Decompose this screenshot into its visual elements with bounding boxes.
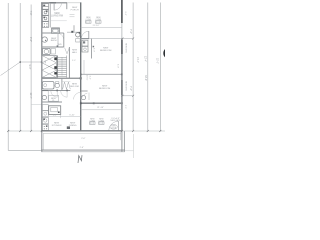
svg-text:6'-10": 6'-10" — [69, 114, 75, 116]
svg-text:10'-6": 10'-6" — [85, 75, 87, 81]
deck bottom edge 1 — [41, 149, 125, 151]
water heater — [42, 95, 46, 99]
bathtub — [42, 82, 54, 90]
window dark blob — [121, 40, 123, 54]
AC unit 4 — [99, 118, 105, 124]
margin bubble — [164, 49, 173, 58]
svg-text:BED RM: BED RM — [70, 86, 79, 88]
front door leaf — [53, 3, 55, 10]
deck left edge — [41, 131, 43, 152]
left unit left wall — [41, 2, 43, 131]
svg-text:BEDROOM: BEDROOM — [100, 50, 111, 52]
toilet 2 — [56, 82, 59, 84]
porch step lines — [70, 14, 75, 16]
right unit right wall — [121, 38, 123, 131]
deck top edge — [41, 130, 122, 132]
fence gate dark segment — [121, 0, 123, 23]
entry return wall — [66, 3, 68, 9]
right dim line A — [132, 3, 134, 132]
deck depth tick — [120, 132, 122, 140]
bath door arc — [57, 33, 63, 39]
door arc party — [74, 92, 81, 99]
deck right edge inner — [123, 131, 125, 152]
svg-text:7'-2": 7'-2" — [129, 29, 132, 34]
porch front edge — [67, 2, 81, 4]
svg-text:21'-10": 21'-10" — [93, 25, 100, 27]
bath top wall segment — [60, 32, 64, 34]
party wall — [80, 2, 82, 131]
wall y102 — [42, 101, 62, 103]
rear wall jamb dot — [93, 102, 95, 104]
right unit porch edge — [89, 38, 122, 40]
left dimension line B — [19, 3, 21, 131]
counter box b — [42, 111, 48, 117]
svg-text:PORCH: PORCH — [71, 10, 79, 12]
svg-text:BEDROOM: BEDROOM — [99, 88, 110, 90]
svg-text:NEW WIN: NEW WIN — [124, 81, 126, 91]
svg-text:5'-0": 5'-0" — [93, 48, 95, 52]
porch door leaf — [73, 25, 75, 31]
AC unit 3 — [90, 118, 96, 124]
wall y78.3 — [42, 77, 81, 79]
window segment 2 accent — [121, 80, 123, 95]
shaft posts — [54, 57, 57, 74]
gate door arc — [109, 121, 119, 131]
wall y47 — [42, 46, 64, 48]
svg-text:3'-0": 3'-0" — [124, 105, 126, 109]
svg-text:2'-6": 2'-6" — [80, 147, 84, 149]
right unit front wall segment — [80, 38, 89, 40]
vanity inner — [53, 29, 58, 32]
svg-text:HALL: HALL — [72, 51, 78, 54]
right unit counter box 2 — [82, 46, 88, 52]
grade line bottom left — [8, 149, 42, 151]
leader horizontal y57.6 — [20, 61, 42, 63]
right unit toilet — [81, 96, 85, 100]
hall wall y33 — [42, 32, 52, 34]
toilet — [42, 37, 47, 42]
svg-text:5'-0": 5'-0" — [116, 64, 118, 68]
rear yard dim line — [81, 109, 122, 111]
dim tick dot — [93, 46, 95, 48]
AC unit 2 — [96, 17, 102, 23]
hall wall x69.4 — [68, 47, 70, 78]
kitchen dim line — [49, 115, 81, 119]
gate label oval — [110, 125, 117, 130]
right dim line C — [159, 3, 161, 132]
mid wall junction dots — [80, 74, 82, 76]
svg-text:2'-8": 2'-8" — [29, 37, 32, 42]
left dimension line A — [7, 3, 9, 151]
mid wall right unit — [81, 73, 122, 75]
right dim arrow y95.8 — [122, 95, 133, 97]
front window sill dark segment — [50, 2, 57, 4]
porch door hinge dot — [71, 31, 73, 33]
dryer box — [51, 48, 55, 54]
svg-text:KITCHEN: KITCHEN — [52, 125, 62, 127]
bath inner wall — [57, 33, 59, 47]
right unit rear wall — [80, 102, 122, 104]
vanity unit on wall — [52, 28, 60, 34]
stair shaft box — [42, 56, 56, 78]
right dim line A lower — [133, 134, 135, 158]
stair direction arrow — [61, 58, 63, 76]
washer — [43, 48, 51, 54]
closet door V top — [65, 48, 70, 54]
svg-text:21'-4": 21'-4" — [136, 57, 139, 63]
kitchen partition wall — [49, 3, 51, 28]
left dimension line C — [30, 5, 32, 132]
left unit front wall — [41, 2, 67, 4]
stair treads — [57, 57, 66, 76]
svg-text:2'-6": 2'-6" — [81, 138, 85, 140]
closet outline — [49, 95, 59, 101]
living room edge faint — [50, 20, 67, 22]
right dim arrow y38.6 — [122, 38, 133, 40]
counter dark bits — [43, 118, 45, 120]
kitchen appliance column — [43, 4, 49, 28]
front yard dim line — [81, 27, 122, 29]
right dim line B — [147, 3, 149, 132]
porch rear wall — [67, 31, 81, 33]
deck step dark mark — [67, 126, 70, 129]
dim tick pair — [88, 93, 90, 101]
svg-text:22'-0": 22'-0" — [156, 58, 158, 64]
svg-text:BATH: BATH — [51, 39, 57, 42]
wc near party wall — [76, 33, 80, 37]
island counter — [49, 106, 61, 115]
right unit entry leaf — [88, 31, 90, 38]
right baseline y131 — [122, 130, 165, 132]
rear wall end dots — [80, 102, 82, 104]
svg-text:LIVING RM: LIVING RM — [51, 15, 63, 17]
island dark dot — [58, 111, 60, 113]
wall junction dot — [80, 77, 82, 79]
svg-text:11'-4": 11'-4" — [29, 93, 32, 99]
leader diagonal — [1, 62, 21, 76]
svg-text:21'-10": 21'-10" — [97, 107, 104, 109]
svg-text:6'-0": 6'-0" — [124, 12, 126, 16]
dimension arrow ticks — [7, 38, 161, 132]
svg-text:W/D: W/D — [58, 44, 63, 46]
bath side wall — [63, 33, 65, 47]
vanity top edge — [52, 27, 60, 29]
bath door arc right unit — [81, 93, 88, 101]
closet wall right unit — [91, 39, 93, 59]
front yard fence line — [121, 0, 123, 38]
svg-text:12'-4": 12'-4" — [143, 56, 146, 62]
north mark — [78, 155, 82, 163]
right unit entry arc — [81, 31, 88, 38]
AC unit 1 — [86, 17, 92, 23]
svg-text:4'-2": 4'-2" — [53, 114, 57, 116]
deck right edge outer — [121, 131, 123, 152]
svg-text:DOOR: DOOR — [111, 127, 117, 129]
deck inner left vertical — [42, 133, 44, 150]
door arc hall 1 — [51, 91, 57, 97]
svg-text:3'-2": 3'-2" — [88, 76, 90, 80]
right unit closet line — [83, 60, 85, 74]
appliance dark bits — [43, 5, 47, 18]
svg-text:7'-6": 7'-6" — [29, 11, 32, 16]
range — [42, 124, 48, 130]
bath stub wall — [81, 90, 88, 92]
h tick line y104 — [31, 104, 41, 106]
stove burners — [44, 23, 48, 27]
svg-text:5'-0": 5'-0" — [72, 60, 76, 62]
counter box a — [42, 105, 48, 111]
bifold closet doors — [63, 82, 71, 89]
door arc hall 2 — [61, 91, 67, 97]
sink counter — [42, 117, 48, 123]
svg-text:33'-6": 33'-6" — [144, 75, 147, 81]
deck inner line — [43, 132, 121, 134]
right unit counter box 1 — [82, 40, 88, 46]
left baseline y131 — [8, 130, 41, 132]
svg-text:9'-0": 9'-0" — [28, 65, 31, 70]
front door swing arc — [54, 3, 61, 10]
svg-text:NEW WIN: NEW WIN — [124, 43, 126, 53]
deck bottom edge 2 — [41, 151, 125, 153]
bath2 wall — [61, 78, 63, 90]
stair rails — [56, 56, 58, 78]
shaft X braces — [42, 56, 56, 78]
porch-grade line right — [125, 150, 134, 152]
svg-text:7'-2": 7'-2" — [129, 86, 132, 91]
wall y90.5 — [42, 90, 71, 92]
